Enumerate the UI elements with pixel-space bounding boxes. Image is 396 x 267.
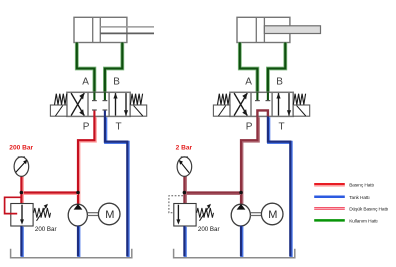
solenoid Y2a with return spring (left actuator) <box>213 94 230 117</box>
svg-text:Kullanım Hattı: Kullanım Hattı <box>349 218 377 224</box>
legend low pressure line (pink) <box>314 206 388 212</box>
relief valve RV1 adjustable spring <box>34 204 51 221</box>
drive shaft coupling <box>250 213 261 216</box>
valve V2 centre position (A,B blocked; P connected to T) <box>255 92 270 116</box>
solenoid Y1a with return spring (left actuator) <box>50 94 67 117</box>
pressure gauge G1 <box>14 157 29 176</box>
wire pressure line pump to valve P, circuit 1 <box>78 116 95 216</box>
valve V2 left position (crossed flow arrows) <box>234 93 247 116</box>
valve V1 centre position (all ports blocked) <box>92 92 107 116</box>
svg-text:M: M <box>105 209 114 221</box>
wire green A-line (cylinder cap end to valve port A) circuit 2 <box>240 43 258 93</box>
relief valve RV2 adjustable spring <box>197 204 214 221</box>
reservoir tank T1 <box>11 249 132 258</box>
svg-text:200 Bar: 200 Bar <box>35 226 57 233</box>
svg-text:200 Bar: 200 Bar <box>198 226 220 233</box>
svg-text:2 Bar: 2 Bar <box>176 144 193 151</box>
valve V1 left position (crossed flow arrows) <box>71 93 84 116</box>
wire tank return line T, circuit 1 <box>105 116 128 257</box>
directional control valve V2 body (4/3 way) <box>230 92 293 116</box>
wire relief valve drain to tank, circuit 2 <box>183 226 187 257</box>
directional control valve V1 body (4/3 way) <box>67 92 130 116</box>
wire green B-line (cylinder rod end to valve port B) circuit 1 <box>105 43 122 93</box>
junction node at pump line <box>76 191 80 195</box>
cylinder C1 (double-acting, rod retracted) <box>74 17 154 42</box>
wire pump suction line, circuit 2 <box>239 226 243 257</box>
svg-text:A: A <box>82 77 89 88</box>
svg-text:T: T <box>116 122 122 133</box>
svg-text:Tank Hattı: Tank Hattı <box>349 195 369 201</box>
svg-text:Basınç Hattı: Basınç Hattı <box>349 182 374 188</box>
wire green B-line (cylinder rod end to valve port B) circuit 2 <box>268 43 285 93</box>
svg-text:B: B <box>113 77 120 88</box>
reservoir tank T2 <box>174 249 295 258</box>
wire pressure line pump to valve P, circuit 2 <box>241 116 258 216</box>
svg-text:Düşük Basınç Hattı: Düşük Basınç Hattı <box>349 206 388 212</box>
legend tank line (blue) <box>314 195 369 201</box>
relief valve RV2 pilot line (dashed) <box>169 196 183 213</box>
hydraulic pump PU2 <box>231 204 250 226</box>
electric motor M2 <box>261 203 283 225</box>
legend pressure line (red) <box>314 182 374 188</box>
solenoid Y2b with return spring (right actuator) <box>293 94 310 117</box>
pressure relief valve RV1 <box>11 204 33 227</box>
relief valve RV1 pilot line (solid red) <box>5 197 22 213</box>
valve V1 right position (parallel flow arrows) <box>113 93 128 116</box>
svg-text:M: M <box>268 209 277 221</box>
wire pressure branch to gauge/relief, circuit 1 <box>21 191 78 195</box>
svg-text:200 Bar: 200 Bar <box>9 144 33 151</box>
cylinder C2 (double-acting, rod extended) <box>237 17 321 42</box>
svg-text:T: T <box>279 122 285 133</box>
wire pressure branch to gauge/relief, circuit 2 <box>184 191 241 195</box>
pressure gauge G2 <box>177 157 192 176</box>
svg-text:A: A <box>245 77 252 88</box>
hydraulic pump PU1 <box>68 204 87 226</box>
wire gauge stem, circuit 2 <box>183 176 187 205</box>
junction node at gauge/relief branch <box>183 191 187 195</box>
wire tank return line T, circuit 2 <box>268 116 291 257</box>
wire relief valve drain to tank, circuit 1 <box>20 226 24 257</box>
pressure relief valve RV2 <box>174 204 196 227</box>
junction node at pump line <box>239 191 243 195</box>
drive shaft coupling <box>87 213 98 216</box>
junction node at gauge/relief branch <box>20 191 24 195</box>
valve V2 right position (parallel flow arrows) <box>276 93 291 116</box>
svg-text:P: P <box>246 122 253 133</box>
svg-text:P: P <box>83 122 90 133</box>
solenoid Y1b with return spring (right actuator) <box>130 94 147 117</box>
wire pump suction line, circuit 1 <box>76 226 80 257</box>
svg-text:B: B <box>276 77 283 88</box>
wire green A-line (cylinder cap end to valve port A) circuit 1 <box>77 43 95 93</box>
wire gauge stem, circuit 1 <box>20 176 24 205</box>
electric motor M1 <box>98 203 120 225</box>
legend utility line (green) <box>314 218 377 224</box>
